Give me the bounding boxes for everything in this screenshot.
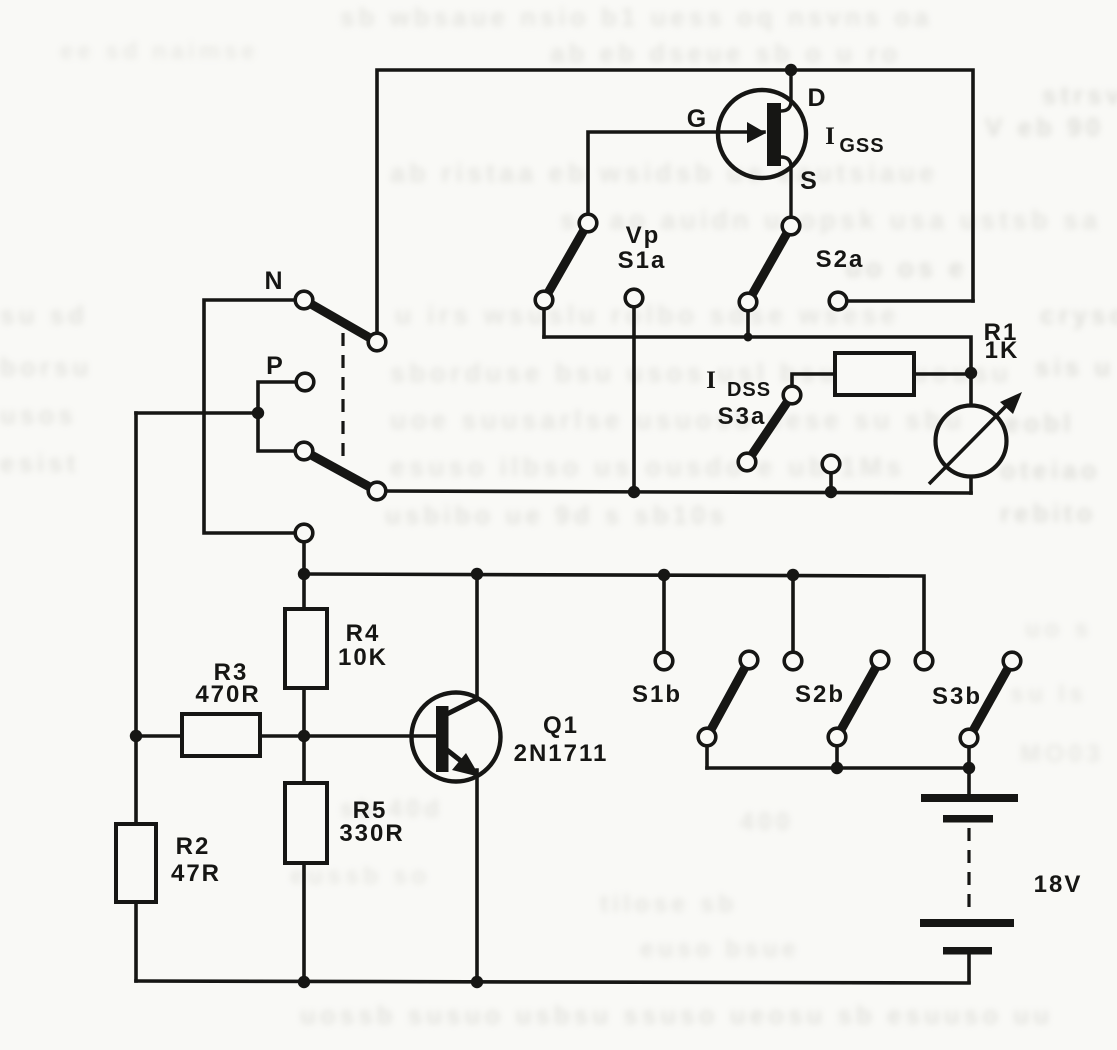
svg-text:D: D xyxy=(807,84,826,112)
switch S3b lever xyxy=(969,661,1012,738)
contact NP lower xyxy=(295,524,313,542)
wire collector vertical xyxy=(475,574,479,697)
gang link dashed xyxy=(341,333,344,463)
contact P xyxy=(296,373,314,391)
battery plate short bottom xyxy=(943,947,992,955)
junction node D xyxy=(785,64,797,76)
wire lower contact stub to collector bus xyxy=(302,536,306,575)
svg-text:I: I xyxy=(825,123,835,150)
wire emitter vertical xyxy=(475,770,479,982)
wire S1b hanging contact stub xyxy=(662,575,666,651)
junction node battery top xyxy=(963,762,975,774)
wire gate lead xyxy=(588,132,764,222)
wire S3a NC contact stub xyxy=(829,466,833,492)
wire S2a NC contact to right rail xyxy=(845,299,973,303)
junction node collector xyxy=(471,568,483,580)
meter M xyxy=(929,404,1008,484)
junction node collector bus left xyxy=(298,568,310,580)
wire R3 left lead xyxy=(136,734,182,738)
svg-text:G: G xyxy=(687,105,707,133)
contact S3a NC xyxy=(822,455,840,473)
battery plate long bottom xyxy=(920,919,1014,927)
wire S2a throw stub xyxy=(746,304,750,337)
svg-text:18V: 18V xyxy=(1034,871,1083,898)
wire emitter return bus xyxy=(707,766,969,770)
wire R4 top stub xyxy=(302,574,306,609)
svg-text:47R: 47R xyxy=(171,860,221,887)
svg-text:S3b: S3b xyxy=(932,683,982,710)
svg-text:GSS: GSS xyxy=(839,135,884,157)
wire S1b pole stub xyxy=(705,746,709,768)
wire R5 top stub xyxy=(302,736,306,783)
svg-text:I: I xyxy=(706,367,716,394)
junction node P xyxy=(252,407,264,419)
contact S1b hanging xyxy=(655,652,673,670)
svg-text:S1b: S1b xyxy=(632,681,682,708)
switch S1a pole contact xyxy=(579,214,597,232)
svg-text:Vp: Vp xyxy=(626,222,661,249)
switch P section lever xyxy=(304,451,377,491)
contact S2b hanging xyxy=(784,652,802,670)
wire IDSS bus xyxy=(544,337,971,404)
svg-text:470R: 470R xyxy=(195,681,260,708)
switch S2a throw contact xyxy=(739,293,757,311)
switch S1b pole contact xyxy=(698,728,716,746)
contact S3b hanging xyxy=(915,652,933,670)
switch S1a throw contact xyxy=(535,291,553,309)
transistor Q1 xyxy=(412,693,501,782)
contact S2a NC xyxy=(829,292,847,310)
switch S2b lever xyxy=(837,660,880,737)
svg-text:330R: 330R xyxy=(339,820,404,847)
svg-text:S2b: S2b xyxy=(795,681,845,708)
svg-text:S: S xyxy=(800,167,818,195)
svg-text:S1a: S1a xyxy=(618,247,667,274)
meter arrowhead xyxy=(1000,392,1022,414)
wire R1 left lead xyxy=(792,374,835,392)
switch S1a lever xyxy=(544,223,588,300)
wire R5 bottom stub xyxy=(302,863,306,982)
switch N pole contact xyxy=(295,291,313,309)
svg-text:N: N xyxy=(264,267,283,295)
switch S3a throw contact xyxy=(738,453,756,471)
switch S1b lever xyxy=(707,660,749,737)
wire P bracket xyxy=(258,382,297,451)
junction node Vp bus xyxy=(628,486,640,498)
wire battery bottom stub xyxy=(967,955,971,982)
wire left rail horizontal xyxy=(136,411,258,415)
switch S1b free contact xyxy=(740,651,758,669)
svg-text:10K: 10K xyxy=(338,644,388,671)
switch S3a pole contact xyxy=(783,386,801,404)
svg-text:S3a: S3a xyxy=(718,403,767,430)
svg-text:R2: R2 xyxy=(176,833,211,860)
junction node emitter ground xyxy=(471,976,483,988)
battery gang dashed xyxy=(967,828,970,916)
switch S3b pole contact xyxy=(960,729,978,747)
Q1 emitter arrowhead xyxy=(452,753,480,777)
switch S3b free contact xyxy=(1003,652,1021,670)
svg-text:P: P xyxy=(266,352,284,380)
battery plate short top xyxy=(943,815,993,823)
switch P throw contact xyxy=(368,482,386,500)
junction node S3a NC bus xyxy=(825,486,837,498)
wire Vp contact to middle bus xyxy=(632,302,636,492)
switch S2a pole contact xyxy=(782,217,800,235)
wire S3b pole stub xyxy=(967,746,971,768)
wire battery top stub xyxy=(967,768,971,795)
wire S2b hanging contact stub xyxy=(791,575,795,651)
resistor R4 xyxy=(285,609,327,688)
svg-text:1K: 1K xyxy=(985,337,1020,364)
junction node R3 left xyxy=(130,730,142,742)
wire S1a throw stub to IDSS bus xyxy=(542,302,546,337)
wire top drain loop xyxy=(377,70,973,341)
junction node S2b bus xyxy=(787,569,799,581)
wire N pole to lower contact rail xyxy=(204,300,300,533)
wire left rail vertical xyxy=(134,413,138,824)
jfet gate bar xyxy=(767,103,781,166)
wire collector bus xyxy=(304,574,924,651)
contact Vp xyxy=(625,289,643,307)
resistor R5 xyxy=(285,783,327,863)
svg-text:S2a: S2a xyxy=(816,246,865,273)
jfet under test xyxy=(718,70,806,222)
battery 18V plate long top xyxy=(921,794,1018,802)
junction node S2a stub tee xyxy=(744,333,753,342)
wire base lead xyxy=(260,734,437,738)
wire bottom ground bus xyxy=(136,981,969,983)
junction node R5 ground xyxy=(298,976,310,988)
resistor R2 xyxy=(116,824,156,902)
junction node R1-meter xyxy=(965,367,977,379)
wire R1 right lead xyxy=(914,372,971,376)
wire meter bottom stub xyxy=(969,478,973,493)
resistor R3 xyxy=(182,714,260,756)
jfet gate arrowhead xyxy=(747,122,766,143)
switch N throw contact xyxy=(368,333,386,351)
Q1 base bar xyxy=(436,706,449,772)
switch S2b free contact xyxy=(871,651,889,669)
wire middle bus xyxy=(380,491,971,493)
switch S3a lever xyxy=(747,395,792,462)
resistor R1 xyxy=(835,353,914,395)
wire R4 bottom stub xyxy=(302,688,306,736)
switch P pole contact xyxy=(295,442,313,460)
switch S2b pole contact xyxy=(828,728,846,746)
junction node S1b bus xyxy=(658,569,670,581)
svg-text:Q1: Q1 xyxy=(543,712,579,739)
svg-text:DSS: DSS xyxy=(727,379,771,401)
switch N section lever xyxy=(304,300,377,342)
wire S2b pole stub xyxy=(835,746,839,768)
wire left rail below R2 xyxy=(134,902,138,981)
switch S2a lever xyxy=(748,226,791,302)
junction node S2b return xyxy=(831,762,843,774)
svg-text:R4: R4 xyxy=(346,620,381,647)
svg-text:2N1711: 2N1711 xyxy=(514,740,609,767)
junction node base xyxy=(298,730,310,742)
